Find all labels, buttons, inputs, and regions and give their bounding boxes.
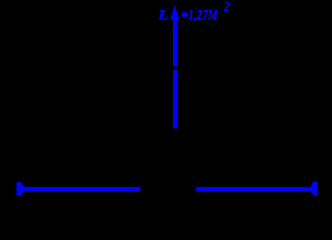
svg-text:=1,27M: =1,27M — [182, 8, 219, 24]
svg-text:L: L — [158, 7, 168, 24]
svg-text:2: 2 — [223, 0, 229, 15]
